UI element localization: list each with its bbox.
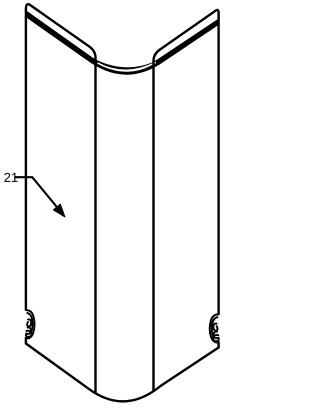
right curl outer contour <box>210 314 219 342</box>
top rim band lower line (hem fold, sweeps through valley) <box>26 15 219 73</box>
left outer edge below curl + bottom edge with rounded bottom curve + right lower corner <box>26 337 219 401</box>
left curl inner arc <box>27 313 32 333</box>
right outer edge above curl + rounded top-right peak + right top edge + right corner vertical <box>154 10 219 392</box>
left curl middle arc <box>27 327 31 333</box>
left curl inner loop <box>27 319 31 326</box>
right curl bottom loop <box>213 335 219 341</box>
top rim band upper line (hem fold, sweeps through valley) <box>26 12 219 69</box>
left rolled-edge curl <box>26 310 35 338</box>
leader arrowhead <box>54 204 65 217</box>
white sliver between the rim band lines in the valley <box>98 62 156 70</box>
right curl inner arc <box>212 317 218 337</box>
left outer edge (top segment, rounded top-left peak corner) <box>26 4 29 310</box>
reference numeral 21 (digit 1) <box>12 173 18 182</box>
right curl middle arc <box>213 332 217 338</box>
reference numeral 21 (digit 2) <box>4 173 10 182</box>
left top edge thin outer line curving into left corner vertical <box>29 4 96 393</box>
leader line for reference numeral 21 <box>15 177 57 207</box>
right rolled-edge curl <box>210 314 219 342</box>
left curl bottom loop <box>26 331 32 337</box>
right curl inner loop <box>213 324 217 331</box>
left curl outer contour <box>26 310 35 338</box>
